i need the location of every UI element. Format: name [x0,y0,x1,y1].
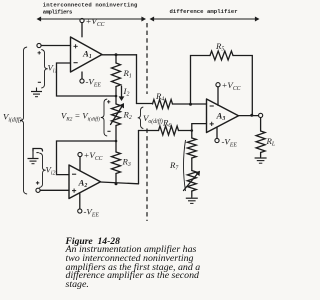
junction: R7 tap [191,129,194,132]
wire: R7a to R7b [191,158,193,171]
wire: A2 inverting feedback [57,141,117,175]
dimension arrow: first stage span [39,18,144,20]
wire: R6 node down to R7 [191,131,193,139]
svg-text:I2: I2 [123,86,130,98]
wire: R5 left leg [191,56,211,105]
svg-text:R6: R6 [162,118,171,130]
current arrow I2 [121,86,123,98]
polarity + (VR2) [107,100,110,103]
wire: A1 output corner down to R4 [136,55,138,104]
wire: corner to R4 [137,103,153,105]
svg-text:-VEE: -VEE [86,77,102,89]
wire: corner to R6 [139,130,159,132]
stage divider dashed line (lower) [146,129,148,222]
wire: R3 to A2 output wire [115,174,117,184]
resistor R5 [210,51,233,60]
dimension arrow: second stage span [152,18,257,20]
resistor R2 (variable) [112,104,121,126]
polarity - (VR2) [107,130,110,132]
svg-text:Vo(diff): Vo(diff) [143,113,163,125]
supply +VCC (A2) [79,157,81,171]
svg-text:interconnected noninverting: interconnected noninverting [43,2,138,9]
junction: output node [250,114,253,117]
pin + (A1 noninverting) [74,44,78,48]
op-amp A2 [69,165,101,199]
pin - (A2 inverting) [72,173,76,175]
svg-text:Vi(diff): Vi(diff) [3,112,22,124]
svg-text:+VCC: +VCC [86,16,105,28]
resistor R1 [112,63,121,87]
svg-text:R1: R1 [123,68,132,80]
svg-text:R2: R2 [123,110,132,122]
pin - (A1 inverting) [74,62,78,64]
wire: R1 to R2 [115,87,117,105]
svg-text:A3: A3 [216,111,226,123]
ground (R7) [191,196,193,198]
pin + (A2 noninverting) [72,189,76,193]
svg-text:R4: R4 [155,91,164,103]
svg-text:+VCC: +VCC [84,150,103,162]
wire: R6 to A3 noninverting input [179,124,207,131]
wire: Vi2 terminal to A2 noninverting input [40,189,69,191]
wire: A2 output to corner [101,182,139,184]
ground (RL) [260,157,262,159]
wire: RL to ground [260,153,262,157]
svg-text:-VEE: -VEE [222,137,238,149]
wire: Vi1 terminal to A1 noninverting input [41,45,70,47]
svg-text:-VEE: -VEE [84,207,100,219]
svg-text:VR2 = Vi(diff): VR2 = Vi(diff) [61,111,100,123]
brace Vi2 [39,153,45,188]
svg-text:A2: A2 [78,178,88,190]
supply -VEE (A2) [79,194,81,209]
output terminal [259,113,263,117]
op-amp A3 [207,99,239,133]
pin + (A3 noninverting) [210,122,214,126]
brace VR2 [101,99,107,136]
brace Vi1 [41,50,47,89]
wire: R7 to ground [191,191,193,196]
polarity + (Vi2) [36,181,39,184]
svg-text:R7: R7 [169,160,179,172]
resistor R4 [153,100,173,109]
wire: R2 to R3 [115,126,117,153]
junction: R5 tap [189,103,192,106]
polarity - (Vi1) [38,81,41,83]
wire: A1 inverting feedback [57,63,117,96]
wire: R5 right leg to output [233,56,252,116]
svg-text:R3: R3 [122,157,131,169]
input terminal Vi1 [37,43,41,47]
junction: R3 bottom [115,182,118,185]
wire: A3 output [239,115,259,117]
brace Vo(diff) [138,107,144,129]
junction: R1 top on A1 output [115,53,118,56]
svg-text:A1: A1 [82,49,92,61]
wire: R4 to A3 inverting input [173,103,207,105]
svg-text:RL: RL [266,136,276,148]
resistor R6 [159,126,179,135]
input terminal Vi2 [36,188,40,192]
svg-text:R5: R5 [215,41,224,53]
svg-text:Vi2: Vi2 [46,165,56,177]
svg-text:amplifiers: amplifiers [43,9,73,16]
junction: A2 feedback tap [115,140,118,143]
resistor R7a (fixed) [187,138,196,158]
resistor R3 [112,152,121,174]
op-amp A1 [71,37,103,72]
stage divider dashed line (upper) [146,23,148,94]
brace Vi(diff) [20,47,27,194]
ground (Vi2) [32,151,34,159]
svg-text:difference amplifier: difference amplifier [170,8,238,15]
resistor R7b (variable) [187,171,196,192]
supply -VEE (A1) [81,72,83,79]
resistor RL [256,131,265,153]
ground (Vi1) [36,88,38,92]
wire: A1 output to corner [102,54,137,56]
supply -VEE (A3) [216,127,218,138]
polarity + (Vi1) [38,51,41,54]
junction: feedback tap [115,95,118,98]
figure caption [66,238,201,290]
wire: output to RL [260,118,262,131]
bracket R7 [184,140,186,191]
supply +VCC (A1) [81,23,83,37]
svg-text:+VCC: +VCC [222,80,241,92]
polarity - (Vi2) [36,152,38,154]
wire: A2 output corner up to R6 [138,131,140,184]
pin - (A3 inverting) [210,105,214,107]
supply +VCC (A3) [217,87,219,105]
